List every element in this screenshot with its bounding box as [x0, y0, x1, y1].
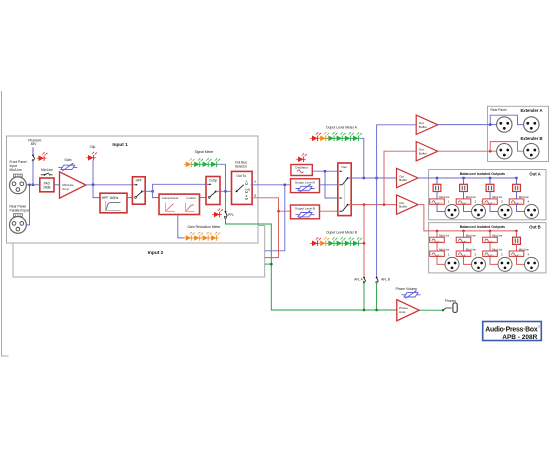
pad 26dB box [40, 178, 54, 192]
phone volume potentiometer [402, 290, 421, 298]
mic/line switch [41, 173, 53, 176]
wire out A to XLR 3 [490, 204, 498, 211]
phantom LED [37, 152, 48, 161]
wire phantom to input line [32, 161, 34, 185]
node out A bus tap 2 [462, 177, 464, 179]
wire out A to XLR 2 [464, 204, 472, 211]
svg-text:Out To: Out To [236, 174, 246, 178]
svg-text:Comp: Comp [209, 179, 218, 183]
wire HPF filter to switch [127, 197, 134, 199]
meter B LED 4 [335, 237, 346, 246]
switch mic/line out A 2 [456, 199, 471, 204]
filter HPF 160Hz box [100, 193, 127, 213]
phantom switch [32, 147, 35, 161]
node extender A tap [375, 177, 377, 179]
wire PFL green bus [226, 218, 397, 310]
node phantom/input junction [32, 184, 34, 186]
wire signal meter tap [219, 164, 226, 191]
svg-text:Ouput Level Meter B: Ouput Level Meter B [326, 230, 358, 234]
wire out B to XLR 3 [490, 256, 498, 264]
node out A bus tap 3 [489, 177, 491, 179]
phones jack [453, 303, 457, 313]
wire oscillator to B switch [325, 171, 340, 198]
svg-text:Mic/Line: Mic/Line [466, 195, 477, 199]
output level A box [291, 179, 320, 193]
wire out A transformer to switch 4 [516, 192, 518, 199]
XLR out B 1 [445, 257, 459, 271]
XLR extender A jack 2 [524, 117, 539, 132]
wire comp switch output [216, 190, 237, 192]
svg-text:Balanced Isolated Outputs: Balanced Isolated Outputs [460, 225, 505, 229]
svg-text:48V: 48V [31, 142, 38, 146]
switch mic/line out A 1 [430, 199, 445, 204]
switch mic/line out A 4 [509, 199, 524, 204]
node out B bus tap 2 [462, 230, 465, 233]
svg-text:Input 2: Input 2 [148, 250, 164, 256]
svg-text:Amp.: Amp. [399, 310, 406, 314]
AudioPressBox logo [483, 322, 542, 341]
XLR extender B jack 2 [524, 144, 539, 159]
op-amp out buffer extender A [416, 115, 438, 134]
svg-text:A+B: A+B [245, 188, 250, 192]
wire compressor to GR meter [178, 215, 184, 238]
wire meter A tap [361, 138, 364, 178]
wire extender A riser [377, 125, 417, 178]
op-amp out buffer bus A [397, 168, 419, 187]
wire AFL B to green bus [376, 283, 378, 310]
wire out B to XLR 1 [437, 256, 445, 264]
switch mic/line out B row2 2 [456, 251, 471, 256]
wire amp output [86, 184, 132, 186]
oscillator box [291, 165, 312, 176]
wire out B mid 4 [516, 244, 518, 251]
wire output level B to osc switch [320, 210, 341, 212]
meter A LED 3 [327, 132, 338, 141]
node phones connector [442, 309, 444, 311]
wire input2 bus B link [265, 211, 279, 257]
node extender A junction [489, 123, 491, 125]
svg-text:Limiter: Limiter [187, 196, 196, 200]
node amp output junction [92, 184, 94, 186]
wire extender A link [490, 115, 523, 124]
XLR extender B jack 1 [497, 144, 512, 159]
node parallel input junction [28, 184, 30, 186]
node meter A tap [363, 177, 365, 179]
phones jack switch contact [443, 308, 451, 310]
svg-text:Clip: Clip [90, 145, 96, 149]
node HPF output junction [151, 190, 153, 192]
meter B LED 2 [318, 237, 329, 246]
wire out B mid 2 [463, 243, 465, 251]
svg-text:Output Level B: Output Level B [295, 207, 315, 211]
wire out B drop 1 [436, 231, 438, 237]
op-amp Phone Amp [397, 300, 419, 321]
switch PFL [225, 191, 228, 218]
XLR out B 4 [525, 257, 539, 271]
wire out B to XLR 2 [464, 256, 472, 264]
svg-text:Signal Meter: Signal Meter [194, 150, 214, 154]
switch AFL A [363, 277, 366, 284]
node green bus junction [270, 263, 273, 266]
meter A LED 2 [318, 132, 329, 141]
node meter B tap [363, 203, 366, 206]
op-amp Mic/Line Amp [60, 172, 86, 198]
meter B LED 3 [327, 237, 338, 246]
wire to compressor [153, 191, 159, 197]
switch AFL B [376, 277, 379, 284]
wire out B mid 3 [489, 243, 491, 251]
switch Comp bypass [206, 177, 220, 205]
wire out B drop 3 [489, 231, 491, 237]
wire out buffer B to bus [418, 205, 437, 231]
svg-text:Selector: Selector [235, 164, 248, 168]
svg-text:B: B [246, 194, 248, 198]
switch HPF bypass [132, 177, 145, 204]
switch mic/line out B row1 1 [430, 237, 445, 242]
wire bus A from selector [251, 184, 291, 186]
svg-text:Mic/Line: Mic/Line [10, 168, 22, 172]
XLR out B 3 [498, 257, 512, 271]
XLR rear panel parallel input [10, 214, 27, 234]
svg-text:Mic/Line: Mic/Line [41, 168, 53, 172]
wire pad to amp [53, 184, 60, 186]
meter A LED 4 [335, 132, 346, 141]
wire bus A to out buffers [348, 177, 397, 179]
outer frame (clipped at page left) [2, 91, 9, 356]
wire extender B riser [384, 151, 416, 204]
wire extender A feed [438, 124, 497, 126]
node AFL A green junction [363, 309, 366, 312]
node out A bus tap 4 [515, 177, 517, 179]
wire out B mid 1 [436, 243, 438, 251]
svg-text:Mic/Line: Mic/Line [439, 195, 450, 199]
svg-text:APB - 208R: APB - 208R [502, 334, 537, 341]
signal meter LED 1 [184, 158, 195, 167]
wire AFL B drop [376, 178, 378, 277]
svg-text:Phone Volume: Phone Volume [396, 287, 418, 291]
wire out A to XLR 4 [517, 204, 525, 211]
wire oscillator output [312, 170, 340, 172]
svg-text:AFL A: AFL A [354, 278, 363, 282]
wire extender B link [490, 142, 523, 152]
GR meter LED 3 [201, 232, 212, 241]
svg-text:Parallel Input: Parallel Input [10, 209, 29, 213]
transformer out A 4 [513, 184, 521, 191]
transformer out B 4 [513, 237, 521, 244]
GR meter LED 1 [184, 232, 195, 241]
wire out A to XLR 1 [437, 204, 445, 211]
wire to HPF filter [93, 185, 101, 198]
wire out A drop 4 [516, 178, 518, 184]
wire bus B from selector [251, 198, 291, 211]
meter A LED 6 [351, 132, 362, 141]
svg-text:Amp.: Amp. [62, 187, 69, 191]
wire direct to comp switch [153, 184, 206, 191]
node extender B junction [489, 150, 492, 153]
compressor/limiter box [159, 194, 200, 214]
wire out B drop 2 [463, 231, 465, 237]
signal meter LED 3 [201, 158, 212, 167]
svg-text:Rear Panel: Rear Panel [491, 108, 507, 112]
wire out A drop 3 [489, 178, 491, 184]
meter B LED 6 [351, 237, 362, 246]
wire AFL A to green bus [363, 283, 365, 310]
wire bus B to out buffers [348, 204, 397, 206]
svg-text:Output Level A: Output Level A [295, 180, 316, 184]
wire output level A to osc switch [320, 184, 341, 186]
svg-text:HPF: HPF [136, 179, 142, 183]
svg-text:Audio·Press·Box: Audio·Press·Box [485, 327, 538, 334]
wire phone amp output [419, 309, 443, 311]
wire out A drop 1 [436, 178, 438, 184]
switch mic/line out A 3 [483, 199, 498, 204]
wire rear XLR parallel link [26, 185, 29, 225]
wire out B bus [437, 230, 517, 232]
wire out A transformer to switch 3 [489, 192, 491, 199]
svg-text:Oscillator: Oscillator [295, 166, 308, 170]
switch mic/line out B row2 3 [483, 251, 498, 256]
XLR out B 2 [472, 257, 486, 271]
input channel 2 block box [13, 226, 265, 278]
clip LED [86, 152, 97, 161]
svg-text:Osc.: Osc. [341, 165, 348, 169]
switch mic/line out B row1 3 [483, 237, 498, 242]
svg-text:Balanced Isolated Outputs: Balanced Isolated Outputs [460, 172, 505, 176]
transformer out A 2 [460, 184, 468, 191]
svg-text:®: ® [538, 324, 540, 328]
svg-text:Extender B: Extender B [520, 136, 542, 141]
transformer out A 3 [486, 184, 494, 191]
XLR extender A jack 1 [497, 117, 512, 132]
signal meter LED 2 [192, 158, 203, 167]
wire out A drop 2 [463, 178, 465, 184]
op-amp out buffer bus B [397, 195, 419, 214]
wire HPF switch output [142, 190, 153, 192]
svg-text:Gain Reduction Meter: Gain Reduction Meter [188, 225, 222, 229]
wire clip LED to signal [92, 161, 94, 185]
XLR out A 2 [472, 205, 486, 219]
meter A LED 1 [310, 132, 321, 141]
input channel 1 block box [7, 136, 259, 243]
svg-text:HPF 160Hz: HPF 160Hz [102, 196, 119, 200]
node PFL tap junction [224, 190, 226, 192]
PFL LED [212, 208, 223, 217]
wire out B to XLR 4 [517, 256, 525, 264]
XLR out A 1 [445, 205, 459, 219]
meter B LED 1 [310, 237, 321, 246]
switch mic/line out B row2 4 [509, 251, 524, 256]
wire out A bus [418, 177, 517, 179]
wire out A transformer to switch 2 [463, 192, 465, 199]
wire input2 bus A riser [265, 185, 285, 251]
svg-text:Input 1: Input 1 [112, 142, 128, 147]
wire compressor to comp switch [200, 197, 208, 199]
wire input2 AFL green link [265, 263, 272, 265]
svg-text:Mic/Line: Mic/Line [492, 195, 503, 199]
node out A bus tap 1 [436, 177, 438, 179]
meter B LED 5 [343, 237, 354, 246]
svg-text:Extender A: Extender A [521, 108, 543, 113]
balanced isolated outputs box Out B [429, 223, 546, 273]
node bus B junction [277, 210, 280, 213]
wire meter B tap / AFL A drop [361, 242, 364, 244]
gain potentiometer [58, 163, 77, 171]
output level B box [291, 205, 320, 219]
node AFL B green junction [375, 309, 378, 312]
svg-text:Out B: Out B [529, 224, 540, 229]
svg-text:A: A [254, 180, 256, 184]
XLR out A 4 [525, 205, 539, 219]
wire extender B feed [438, 150, 497, 152]
node bus A / input2 junction [284, 184, 286, 186]
svg-text:AFL B: AFL B [381, 278, 390, 282]
rear panel extender box [488, 106, 549, 161]
node oscillator junction [324, 170, 326, 172]
wire front XLR to pad [26, 184, 39, 186]
XLR out A 3 [498, 205, 512, 219]
switch mic/line out B row1 2 [456, 237, 471, 242]
node out B bus tap 4 [515, 230, 518, 233]
svg-text:26dB: 26dB [43, 186, 50, 190]
node meter B junction [363, 242, 366, 245]
GR meter LED 4 [209, 232, 220, 241]
XLR front panel input [10, 174, 27, 194]
svg-text:PFL: PFL [228, 213, 234, 217]
switch mic/line out B row2 1 [430, 251, 445, 256]
node out B bus tap 1 [436, 230, 439, 233]
svg-text:Ouput Level Meter A: Ouput Level Meter A [326, 125, 358, 129]
signal meter LED 4 [209, 158, 220, 167]
wire out B drop 4 [516, 231, 518, 237]
transformer out A 1 [433, 184, 441, 191]
svg-text:Mic/Line: Mic/Line [519, 195, 530, 199]
oscillator LED [296, 153, 307, 162]
node extender B tap [383, 203, 386, 206]
svg-text:Gain: Gain [64, 158, 71, 162]
svg-text:A: A [246, 180, 248, 184]
switch Out To selector box [232, 171, 253, 204]
GR meter LED 2 [192, 232, 203, 241]
svg-text:Out A: Out A [529, 171, 540, 176]
svg-text:Compressor: Compressor [162, 196, 179, 200]
meter A LED 5 [343, 132, 354, 141]
wire out A transformer to switch 1 [436, 192, 438, 199]
switch Osc selector box [338, 163, 351, 216]
svg-text:B: B [254, 193, 256, 197]
balanced isolated outputs box Out A [429, 170, 546, 220]
op-amp out buffer extender B [416, 142, 438, 161]
node out B bus tap 3 [489, 230, 492, 233]
svg-text:PAD: PAD [44, 181, 51, 185]
